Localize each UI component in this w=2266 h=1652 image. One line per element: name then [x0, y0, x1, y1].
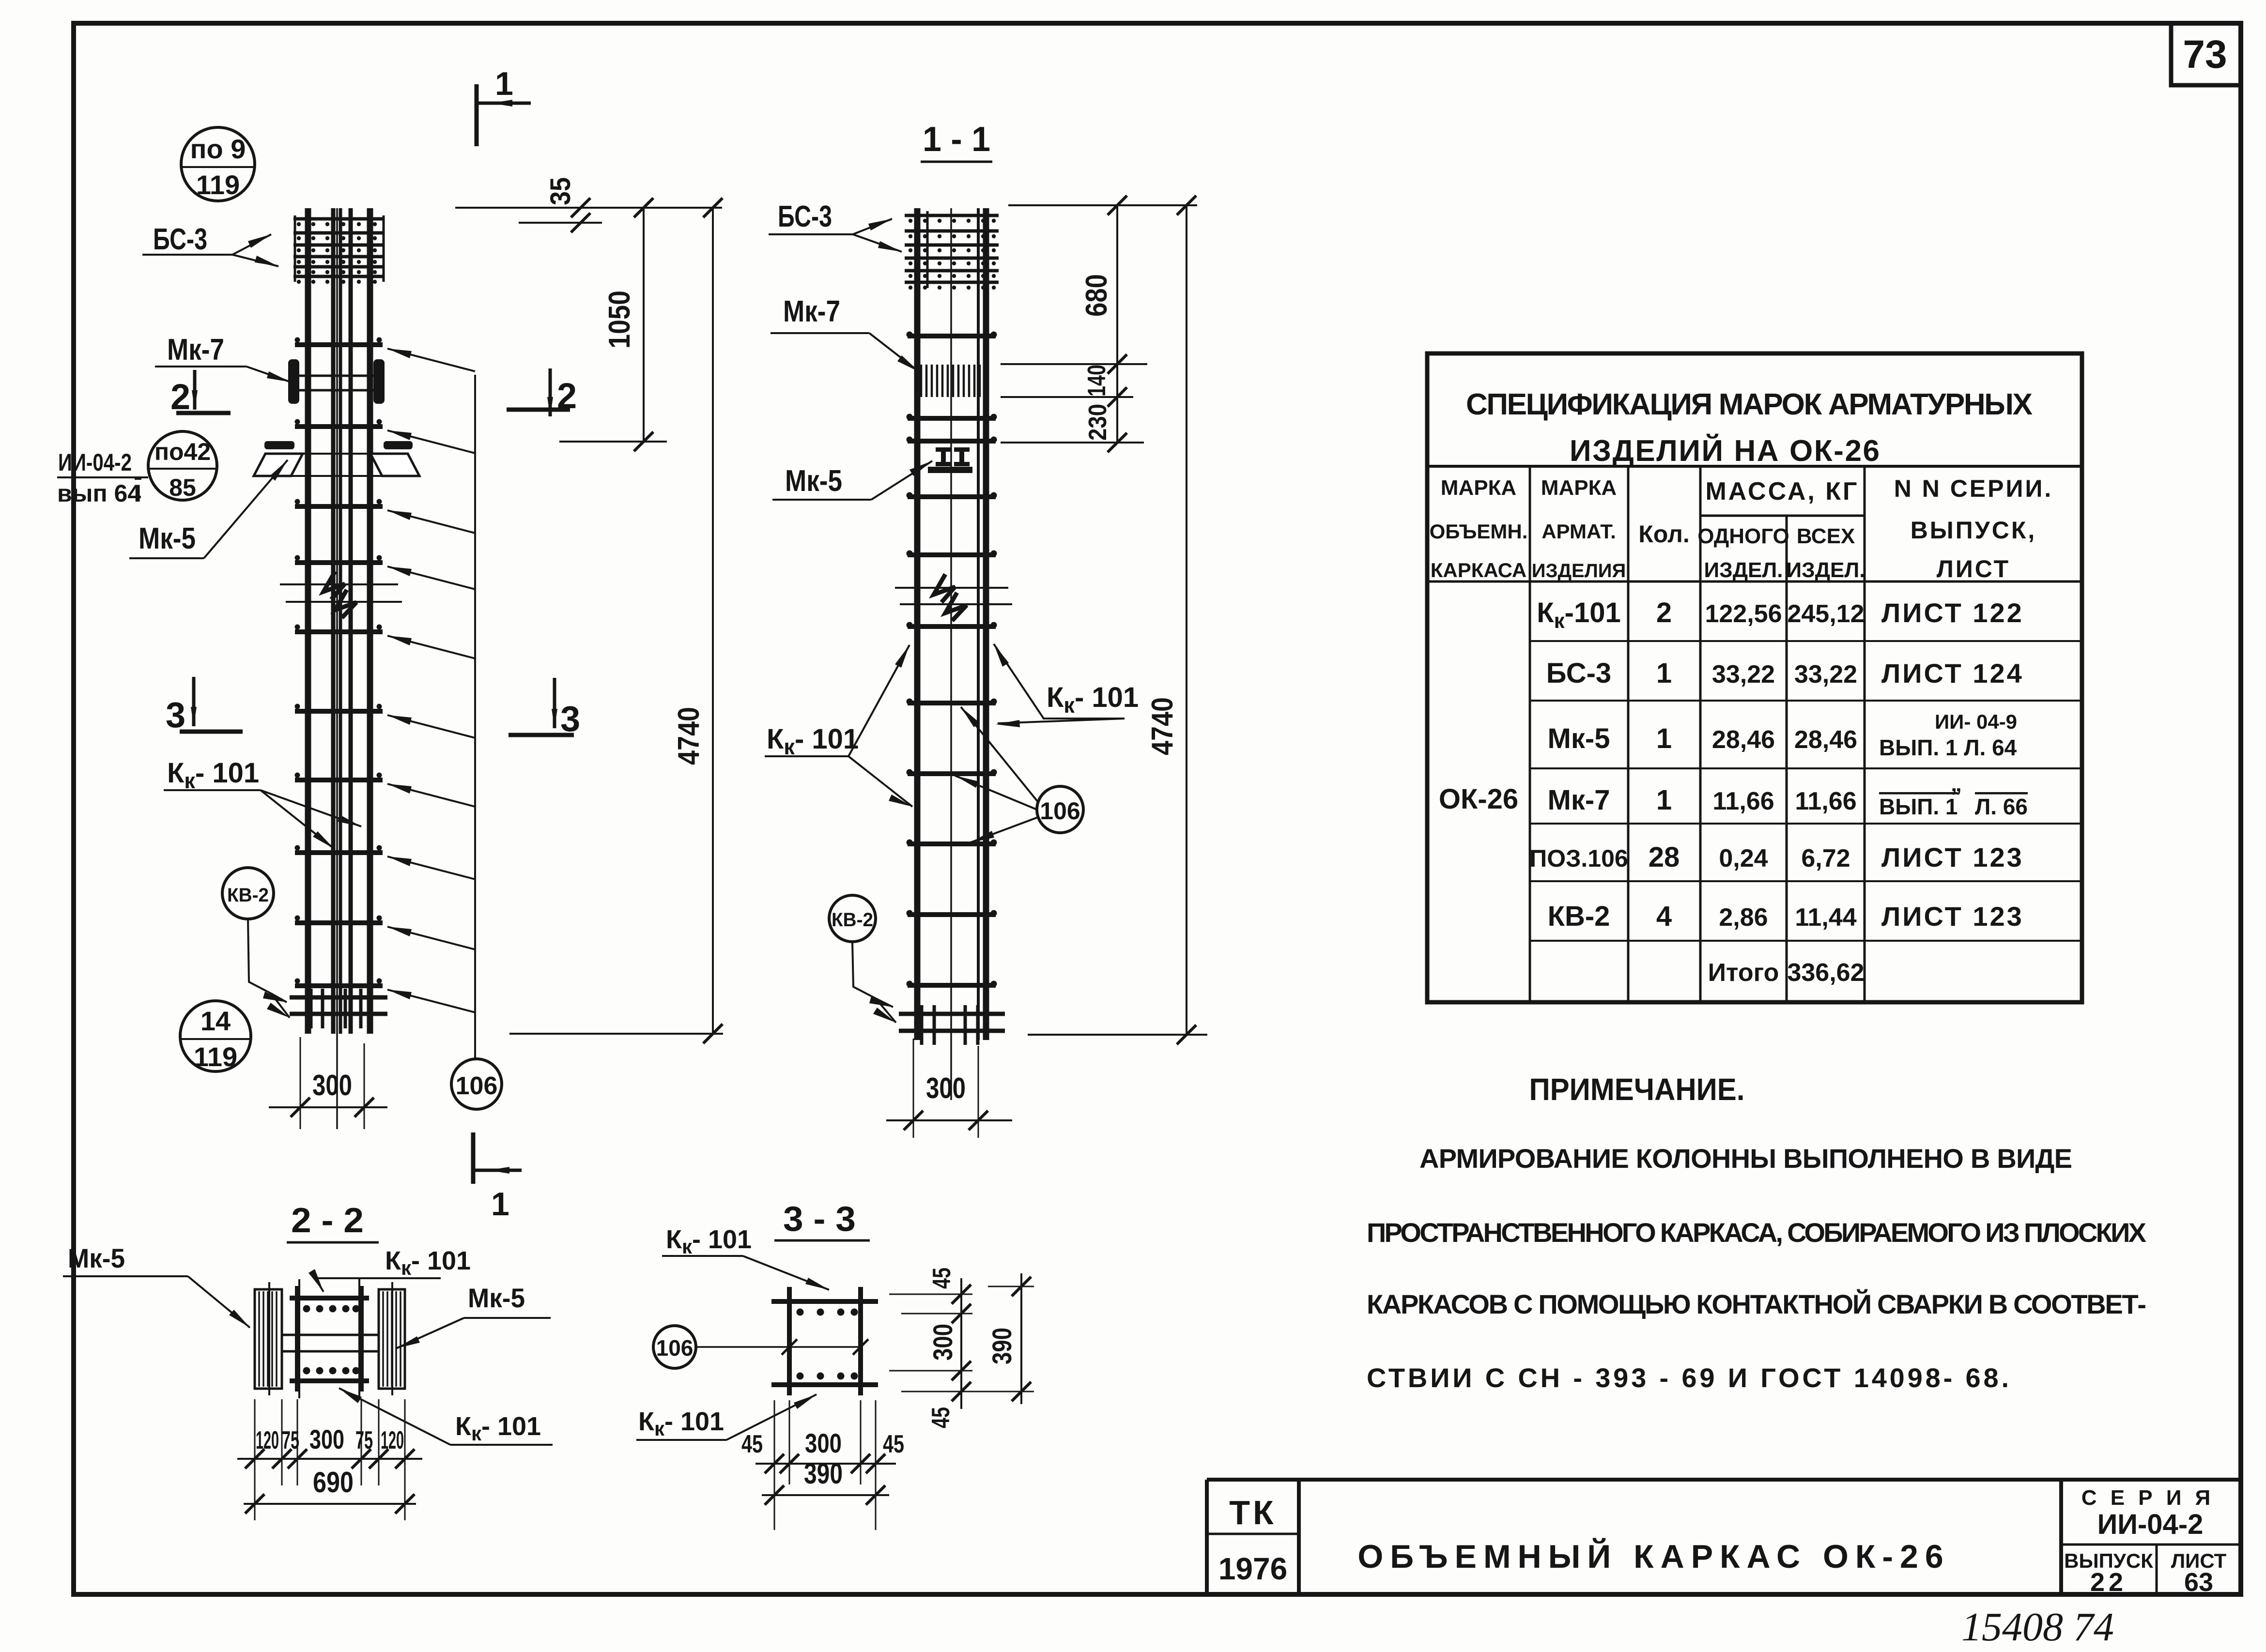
middle view tie pos.106 at y=694	[907, 332, 997, 338]
svg-text:ПРОСТРАНСТВЕННОГО КАРКАСА, С: ПРОСТРАНСТВЕННОГО КАРКАСА, СОБИРАЕМОГО И…	[1367, 1217, 2146, 1248]
table data rows	[1439, 597, 2028, 987]
left view tie pos.106 at y=881	[295, 419, 383, 427]
svg-text:Кк- 101: Кк- 101	[767, 723, 859, 759]
svg-text:4: 4	[1656, 901, 1672, 932]
svg-text:45: 45	[883, 1430, 904, 1458]
svg-text:45: 45	[741, 1430, 763, 1458]
svg-text:I: I	[135, 480, 141, 507]
svg-text:390: 390	[987, 1328, 1017, 1364]
title block frame	[1207, 1480, 2241, 1594]
middle view tie pos.106 at y=1026	[907, 492, 997, 499]
svg-text:Кк- 101: Кк- 101	[385, 1246, 471, 1279]
svg-text:БС-3: БС-3	[778, 200, 832, 233]
dim 35 top	[455, 177, 722, 232]
left view tie pos.106 at y=712	[295, 337, 383, 345]
svg-text:2,86: 2,86	[1719, 903, 1768, 932]
svg-text:ОБЪЕМНЫЙ КАРКАС ОК-26: ОБЪЕМНЫЙ КАРКАС ОК-26	[1357, 1538, 1950, 1575]
specification table frame	[1427, 353, 2082, 1002]
svg-text:ОДНОГО: ОДНОГО	[1697, 524, 1789, 548]
label BS-3 middle view	[769, 200, 902, 252]
svg-text:680: 680	[1080, 274, 1113, 317]
svg-text:ПОЗ.106: ПОЗ.106	[1529, 845, 1628, 872]
svg-text:КВ-2: КВ-2	[832, 909, 873, 931]
svg-text:28: 28	[1649, 841, 1680, 873]
left view longitudinal bar x=688	[331, 208, 336, 1030]
svg-text:ОК-26: ОК-26	[1439, 783, 1518, 815]
svg-text:Кк- 101: Кк- 101	[666, 1225, 752, 1258]
dim 680	[1001, 196, 1197, 374]
table title	[1466, 388, 2033, 468]
svg-text:45: 45	[927, 1407, 955, 1428]
section 2-2 title	[287, 1201, 379, 1242]
svg-text:МАРКА: МАРКА	[1541, 476, 1617, 500]
svg-text:300: 300	[926, 1072, 966, 1104]
svg-text:15408 74: 15408 74	[1961, 1605, 2114, 1650]
svg-text:300: 300	[309, 1424, 344, 1454]
svg-text:73: 73	[2183, 32, 2227, 76]
middle view tie pos.106 at y=1598	[907, 769, 997, 776]
left view tie pos.106 at y=1046	[295, 499, 383, 507]
svg-text:вып 64: вып 64	[57, 480, 141, 507]
svg-text:С Е Р И Я: С Е Р И Я	[2081, 1486, 2215, 1510]
label Mk-7 left view	[155, 333, 291, 382]
svg-text:Итого: Итого	[1708, 959, 1779, 987]
svg-text:Кк- 101: Кк- 101	[638, 1407, 724, 1440]
svg-text:2: 2	[170, 377, 190, 417]
svg-text:ВЫП. 1 Л. 64: ВЫП. 1 Л. 64	[1879, 735, 2017, 760]
pos.106 tie leader	[387, 636, 475, 658]
svg-text:75: 75	[282, 1426, 299, 1454]
svg-text:КВ-2: КВ-2	[227, 885, 269, 906]
pos.106 tie leader	[387, 510, 475, 533]
svg-text:Кк- 101: Кк- 101	[167, 757, 259, 793]
svg-text:МАРКА: МАРКА	[1441, 476, 1516, 500]
section mark 1 top	[477, 65, 531, 146]
section 3-3: wire pos.106 and circle	[653, 1326, 868, 1368]
svg-text:1: 1	[495, 65, 513, 102]
svg-text:119: 119	[194, 1041, 237, 1072]
dim 300 middle view bottom	[886, 1039, 1012, 1138]
section 2-2: cross ties	[269, 1279, 392, 1398]
middle view tie pos.106 at y=911	[907, 437, 997, 443]
svg-text:336,62: 336,62	[1787, 959, 1864, 987]
svg-text:45: 45	[928, 1268, 956, 1289]
section 2-2 label Kk-101 bottom	[339, 1388, 553, 1445]
svg-text:140: 140	[1083, 365, 1111, 397]
svg-text:по42: по42	[154, 438, 211, 465]
title block list 63	[2171, 1549, 2227, 1597]
svg-text:Л. 66: Л. 66	[1975, 794, 2028, 819]
label Kk-101 left view	[164, 757, 361, 849]
svg-text:АРМАТ.: АРМАТ.	[1541, 520, 1616, 543]
svg-text:ВЫП. 1: ВЫП. 1	[1879, 794, 1958, 819]
middle view tie pos.106 at y=1743	[907, 840, 997, 846]
note text	[1367, 1143, 2146, 1393]
left view tie pos.106 at y=1305	[295, 625, 383, 632]
left view: Mk-7 side plates	[288, 359, 385, 404]
svg-text:1: 1	[491, 1186, 509, 1223]
svg-text:Кол.: Кол.	[1638, 520, 1689, 548]
svg-text:3 - 3: 3 - 3	[783, 1200, 856, 1239]
label Mk-5 middle view	[772, 461, 932, 500]
label Kk-101 middle left	[765, 645, 912, 807]
left view: bottom mesh with KV-2 spacers	[290, 989, 387, 1034]
middle view: column bars	[914, 208, 921, 1040]
section mark 1 bottom	[473, 1132, 522, 1223]
section 3-3: Kk-101 bars (horizontal)	[771, 1299, 878, 1304]
section 3-3 dimension chain 45/300/45 bottom	[741, 1400, 904, 1484]
svg-text:Мк-7: Мк-7	[167, 333, 224, 367]
section 3-3: longitudinal bar dots	[797, 1309, 858, 1380]
middle view tie pos.106 at y=1452	[907, 699, 997, 705]
pos.106 tie leader	[387, 784, 475, 807]
svg-text:Мк-5: Мк-5	[139, 522, 196, 555]
svg-text:6,72: 6,72	[1801, 844, 1850, 872]
svg-text:4740: 4740	[1146, 697, 1179, 755]
svg-text:ИИ- 04-9: ИИ- 04-9	[1935, 710, 2017, 733]
left view longitudinal bar x=636	[305, 208, 311, 1030]
svg-text:28,46: 28,46	[1712, 726, 1775, 754]
svg-text:по 9: по 9	[190, 134, 246, 164]
svg-text:Кк-101: Кк-101	[1537, 597, 1621, 633]
svg-text:ВСЕХ: ВСЕХ	[1797, 524, 1855, 548]
svg-text:ИЗДЕЛ.: ИЗДЕЛ.	[1704, 558, 1783, 582]
svg-text:3: 3	[560, 699, 580, 739]
svg-text:Кк- 101: Кк- 101	[455, 1412, 541, 1445]
svg-text:КВ-2: КВ-2	[1548, 901, 1610, 932]
pos.106 tie leader	[387, 349, 475, 371]
dim 140	[1001, 364, 1133, 407]
dim 4740 middle view	[1028, 196, 1207, 1044]
label Kk-101 middle right	[994, 644, 1139, 727]
left view longitudinal bar x=724	[349, 208, 353, 1030]
left view tie pos.106 at y=1611	[295, 773, 383, 780]
svg-text:300: 300	[927, 1324, 958, 1361]
label BS-3 left view	[142, 223, 278, 266]
svg-text:ВЫПУСК,: ВЫПУСК,	[1911, 517, 2037, 544]
label Mk-7 middle view	[771, 295, 919, 372]
svg-text:2: 2	[557, 376, 577, 416]
left view: column axis centerline	[336, 208, 338, 1129]
section 2-2 dimension chain 120/75/300/75/120	[237, 1399, 422, 1485]
svg-text:МАССА, КГ: МАССА, КГ	[1705, 477, 1859, 505]
svg-text:ИЗДЕЛИЯ: ИЗДЕЛИЯ	[1532, 560, 1626, 581]
svg-text:4740: 4740	[672, 707, 706, 765]
svg-text:ИИ-04-2: ИИ-04-2	[2097, 1509, 2204, 1540]
pos.106 tie leader	[387, 990, 475, 1012]
svg-text:ЛИСТ 123: ЛИСТ 123	[1881, 842, 2024, 872]
svg-text:Мк-5: Мк-5	[785, 464, 842, 498]
svg-text:Мк-7: Мк-7	[1548, 784, 1610, 816]
left view tie pos.106 at y=2036	[295, 979, 383, 986]
circle 106 middle view with leaders	[955, 707, 1083, 842]
svg-text:35: 35	[545, 177, 576, 205]
dim 230	[1001, 397, 1144, 452]
svg-text:390: 390	[804, 1457, 843, 1490]
left view: top mesh BS-3	[293, 215, 384, 284]
svg-text:КАРКАСОВ С ПОМОЩЬЮ КОНТАКТ: КАРКАСОВ С ПОМОЩЬЮ КОНТАКТНОЙ СВАРКИ В С…	[1367, 1289, 2146, 1319]
left view tie pos.106 at y=1162	[295, 555, 383, 563]
middle view: Mk-5 rail profiles on plate	[928, 447, 972, 473]
middle view tie pos.106 at y=1889	[907, 910, 997, 917]
section 2-2: Kk-101 bars (horizontal)	[290, 1296, 369, 1300]
svg-text:1: 1	[1656, 784, 1672, 816]
dim 4740 left view	[509, 198, 723, 1043]
section 3-3 label Kk-101 bottom	[636, 1394, 817, 1440]
middle view: bottom mesh with KV-2 spacers	[899, 1005, 1005, 1045]
section 2-2: Kk-101 bars (vertical)	[295, 1286, 300, 1392]
middle view tie pos.106 at y=2035	[907, 981, 997, 987]
svg-text:СПЕЦИФИКАЦИЯ МАРОК АРМАТУРНЫ: СПЕЦИФИКАЦИЯ МАРОК АРМАТУРНЫХ	[1466, 388, 2033, 421]
left view tie pos.106 at y=1761	[295, 845, 383, 853]
svg-text:75: 75	[355, 1426, 373, 1454]
section mark 3 right	[509, 678, 580, 739]
svg-text:230: 230	[1084, 404, 1112, 441]
left view longitudinal bar x=764	[367, 208, 373, 1030]
svg-text:ТК: ТК	[1229, 1494, 1276, 1531]
svg-text:85: 85	[169, 474, 196, 501]
svg-text:14: 14	[200, 1006, 231, 1036]
svg-text:22: 22	[2090, 1568, 2127, 1597]
svg-text:1 - 1: 1 - 1	[923, 120, 990, 159]
svg-text:1050: 1050	[603, 291, 636, 349]
title block series	[2081, 1486, 2215, 1540]
svg-text:690: 690	[313, 1466, 354, 1499]
svg-text:СТВИИ С СН - 393 - 69 И: СТВИИ С СН - 393 - 69 И ГОСТ 14098- 68.	[1367, 1362, 2009, 1393]
svg-text:63: 63	[2184, 1568, 2213, 1597]
svg-text:1: 1	[1656, 658, 1672, 689]
svg-text:122,56: 122,56	[1705, 600, 1782, 628]
section mark 2 right	[507, 368, 577, 416]
svg-text:11,44: 11,44	[1795, 903, 1856, 932]
svg-text:БС-3: БС-3	[153, 223, 207, 256]
svg-text:106: 106	[456, 1072, 498, 1100]
section 2-2 label Mk-5 left	[63, 1243, 250, 1328]
circle KV-2 middle view with leader	[829, 895, 896, 1023]
svg-text:ЛИСТ 124: ЛИСТ 124	[1881, 658, 2024, 688]
pos.106 tie leader	[387, 927, 475, 949]
left view: break lines with zigzag	[280, 571, 402, 618]
svg-text:245,12: 245,12	[1787, 600, 1864, 628]
left view tie pos.106 at y=1469	[295, 704, 383, 712]
sheet number box 73	[2171, 23, 2241, 85]
table header texts	[1430, 475, 2053, 582]
section mark 3	[166, 677, 243, 735]
reference II-04-2 vyp 64 with circle po42/85	[57, 431, 217, 507]
section mark 2	[170, 370, 231, 417]
section 2-2 dimension 690	[244, 1466, 416, 1520]
middle view tie pos.106 at y=1294	[907, 622, 997, 628]
svg-text:ЛИСТ: ЛИСТ	[1937, 555, 2010, 582]
svg-text:ИЗДЕЛ.: ИЗДЕЛ.	[1787, 558, 1865, 582]
circle 106 left view	[451, 1059, 502, 1109]
title block vypusk 22	[2064, 1549, 2153, 1597]
section 3-3 label Kk-101 top	[662, 1225, 829, 1290]
svg-text:119: 119	[196, 169, 240, 200]
svg-text:КАРКАСА: КАРКАСА	[1431, 559, 1527, 581]
svg-text:28,46: 28,46	[1794, 726, 1857, 754]
section 1-1 title	[921, 120, 992, 162]
circle KV-2 left view	[222, 868, 290, 1018]
svg-text:Мк-5: Мк-5	[468, 1283, 525, 1313]
svg-text:ЛИСТ 122: ЛИСТ 122	[1881, 597, 2024, 628]
label Mk-5 left view	[129, 460, 288, 558]
section 3-3: Kk-101 bars (vertical)	[787, 1287, 792, 1395]
pos.106 tie leader	[387, 566, 475, 589]
middle view tie pos.106 at y=1146	[907, 551, 997, 557]
left view: Mk-5 embed (stubs and funnel plates)	[254, 441, 419, 476]
svg-text:БС-3: БС-3	[1546, 658, 1611, 689]
middle view: break lines with zigzag	[895, 574, 1012, 621]
section 2-2: longitudinal bar dots	[303, 1305, 360, 1375]
svg-text:ОБЪЕМН.: ОБЪЕМН.	[1430, 520, 1528, 543]
pos.106 tie leader	[387, 430, 475, 453]
svg-text:106: 106	[1040, 797, 1080, 825]
svg-text:300: 300	[805, 1428, 842, 1458]
circle 14/119	[180, 1001, 251, 1072]
section 3-3 title	[774, 1200, 870, 1240]
dim 1050	[559, 198, 667, 451]
middle view tie pos.106 at y=864	[907, 414, 997, 420]
svg-text:300: 300	[312, 1069, 352, 1101]
svg-text:ЛИСТ 123: ЛИСТ 123	[1881, 901, 2024, 932]
svg-text:3: 3	[166, 695, 185, 735]
section 2-2: Mk-5 hatched plates	[255, 1289, 282, 1389]
svg-text:11,66: 11,66	[1795, 787, 1856, 815]
svg-text:Мк-7: Мк-7	[783, 295, 840, 328]
svg-text:Мк-5: Мк-5	[68, 1243, 125, 1273]
left view tie pos.106 at y=1906	[295, 916, 383, 923]
svg-text:N N СЕРИИ.: N N СЕРИИ.	[1894, 475, 2053, 502]
svg-text:106: 106	[656, 1335, 694, 1361]
table grid lines	[1427, 466, 2082, 1002]
svg-text:ИИ-04-2: ИИ-04-2	[58, 449, 132, 476]
section 3-3 dimension 390 right	[987, 1273, 1034, 1404]
svg-text:АРМИРОВАНИЕ КОЛОННЫ ВЫПОЛНЕНО: АРМИРОВАНИЕ КОЛОННЫ ВЫПОЛНЕНО В ВИДЕ	[1419, 1143, 2072, 1174]
svg-text:ПРИМЕЧАНИЕ.: ПРИМЕЧАНИЕ.	[1529, 1072, 1745, 1107]
svg-text:120: 120	[256, 1426, 279, 1454]
section 3-3 dimension chain 45/300/45 right	[889, 1268, 1034, 1428]
svg-text:2: 2	[1656, 597, 1672, 628]
svg-text:Мк-5: Мк-5	[1548, 723, 1610, 754]
section 2-2 label Mk-5 right	[396, 1283, 551, 1348]
svg-text:33,22: 33,22	[1712, 660, 1775, 688]
svg-text:120: 120	[381, 1426, 404, 1454]
middle view: axis centerline	[950, 208, 952, 1100]
circle po42/85	[148, 431, 217, 501]
dim 300 left view bottom	[269, 1037, 387, 1129]
title block TK 1976	[1218, 1494, 1287, 1586]
left view: pos.106 leader collector line	[474, 375, 476, 1058]
pos.106 tie leader	[387, 715, 475, 738]
svg-text:11,66: 11,66	[1712, 787, 1774, 815]
middle view: top mesh BS-3	[905, 211, 999, 290]
section 2-2 label Kk-101 top	[308, 1246, 471, 1292]
left view longitudinal bar x=703	[339, 208, 342, 1030]
svg-text:1976: 1976	[1218, 1551, 1287, 1586]
svg-text:0,24: 0,24	[1719, 844, 1768, 872]
svg-text:1: 1	[1656, 723, 1672, 754]
svg-text:”: ”	[1951, 783, 1962, 809]
svg-text:2 - 2: 2 - 2	[291, 1201, 364, 1240]
middle view: Mk-7 hatched plate	[921, 365, 980, 397]
section 3-3 dimension 390 bottom	[762, 1457, 889, 1530]
pos.106 tie leader	[387, 857, 475, 879]
circle po9/119	[181, 127, 255, 201]
svg-text:Кк- 101: Кк- 101	[1047, 682, 1139, 718]
svg-text:33,22: 33,22	[1794, 660, 1857, 688]
